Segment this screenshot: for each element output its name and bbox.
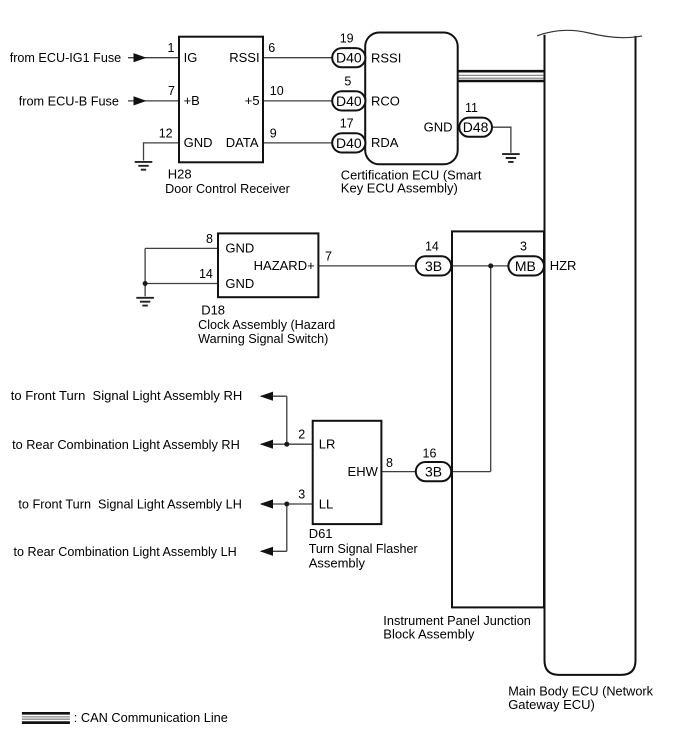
svg-text:8: 8 xyxy=(206,232,213,246)
svg-text:Turn Signal Flasher: Turn Signal Flasher xyxy=(309,541,419,556)
svg-text:Key ECU Assembly): Key ECU Assembly) xyxy=(341,180,458,195)
svg-text:DATA: DATA xyxy=(226,135,259,150)
svg-text:to Rear Combination Light Asse: to Rear Combination Light Assembly RH xyxy=(12,437,240,452)
svg-text:GND: GND xyxy=(225,241,254,256)
svg-text:HZR: HZR xyxy=(550,258,577,273)
svg-text:D40: D40 xyxy=(336,50,362,66)
svg-text:MB: MB xyxy=(515,258,536,274)
svg-text:LR: LR xyxy=(319,437,336,452)
svg-text:Warning Signal Switch): Warning Signal Switch) xyxy=(198,331,328,346)
svg-text:6: 6 xyxy=(268,41,275,55)
svg-text:: CAN Communication Line: : CAN Communication Line xyxy=(74,710,228,725)
svg-text:GND: GND xyxy=(184,135,213,150)
svg-text:Assembly: Assembly xyxy=(309,555,366,570)
svg-text:7: 7 xyxy=(325,249,332,263)
svg-text:12: 12 xyxy=(159,126,173,140)
svg-text:14: 14 xyxy=(199,267,213,281)
svg-text:11: 11 xyxy=(465,101,478,115)
svg-text:HAZARD+: HAZARD+ xyxy=(254,258,315,273)
svg-text:to Front Turn Signal Light As: to Front Turn Signal Light Assembly LH xyxy=(18,497,242,512)
svg-text:D48: D48 xyxy=(463,119,489,135)
svg-text:17: 17 xyxy=(340,117,354,131)
svg-text:GND: GND xyxy=(424,120,453,135)
svg-text:D18: D18 xyxy=(201,302,225,317)
svg-text:8: 8 xyxy=(386,456,393,470)
svg-text:10: 10 xyxy=(270,84,284,98)
svg-text:1: 1 xyxy=(168,41,175,55)
svg-text:RSSI: RSSI xyxy=(229,50,259,65)
svg-text:14: 14 xyxy=(425,240,439,254)
svg-text:3: 3 xyxy=(298,487,305,501)
svg-text:GND: GND xyxy=(225,276,254,291)
svg-text:D61: D61 xyxy=(309,526,333,541)
svg-text:RCO: RCO xyxy=(371,94,400,109)
svg-text:IG: IG xyxy=(184,50,198,65)
svg-text:3B: 3B xyxy=(425,258,442,274)
svg-text:Clock Assembly (Hazard: Clock Assembly (Hazard xyxy=(198,317,335,332)
svg-text:from ECU-B Fuse: from ECU-B Fuse xyxy=(19,93,119,108)
svg-text:5: 5 xyxy=(344,75,351,89)
svg-text:LL: LL xyxy=(319,496,333,511)
svg-text:16: 16 xyxy=(423,447,437,461)
svg-text:Door Control Receiver: Door Control Receiver xyxy=(165,181,290,196)
svg-text:Gateway ECU): Gateway ECU) xyxy=(508,697,595,712)
svg-text:3B: 3B xyxy=(425,464,442,480)
svg-text:+5: +5 xyxy=(245,93,260,108)
svg-text:+B: +B xyxy=(184,93,200,108)
svg-text:2: 2 xyxy=(298,428,305,442)
svg-text:19: 19 xyxy=(340,31,354,45)
svg-text:3: 3 xyxy=(520,240,527,254)
svg-text:RDA: RDA xyxy=(371,135,399,150)
svg-text:H28: H28 xyxy=(168,167,192,182)
svg-text:from ECU-IG1 Fuse: from ECU-IG1 Fuse xyxy=(10,50,122,65)
svg-text:EHW: EHW xyxy=(348,464,379,479)
svg-text:RSSI: RSSI xyxy=(371,50,401,65)
svg-text:to Rear Combination Light Asse: to Rear Combination Light Assembly LH xyxy=(14,544,237,559)
svg-text:to Front Turn Signal Light As: to Front Turn Signal Light Assembly RH xyxy=(11,388,243,403)
svg-text:9: 9 xyxy=(270,126,277,140)
svg-text:D40: D40 xyxy=(336,93,362,109)
svg-text:Block Assembly: Block Assembly xyxy=(383,627,475,642)
svg-text:D40: D40 xyxy=(336,135,362,151)
svg-text:7: 7 xyxy=(168,84,175,98)
